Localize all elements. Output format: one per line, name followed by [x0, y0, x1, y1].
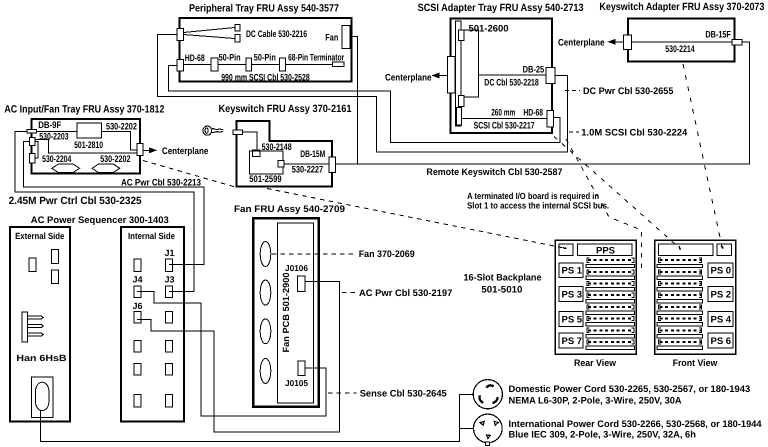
connector centerplane (AC tray right): [137, 144, 143, 156]
svg-text:A terminated I/O board is requ: A terminated I/O board is required in: [467, 191, 599, 201]
wire internal SCSI chain: [183, 64, 332, 66]
PS 0 box: [708, 263, 733, 277]
svg-text:J3: J3: [165, 274, 175, 284]
connector DC (peripheral left): [177, 29, 183, 41]
wire SCSI Cbl 530-2217: [462, 118, 547, 120]
connector DB-9F: [27, 129, 36, 133]
svg-text:1.0M SCSI Cbl 530-2224: 1.0M SCSI Cbl 530-2224: [581, 127, 688, 138]
connector DC cable end lower: [235, 35, 240, 42]
connector 50-pin 2: [246, 58, 252, 71]
svg-text:DC Cable 530-2216: DC Cable 530-2216: [246, 29, 307, 40]
fan oval 3: [260, 319, 271, 344]
external connector a: [29, 258, 36, 272]
external connector c: [51, 270, 58, 284]
front view box: [655, 240, 736, 354]
tick in rear small box (dashed end): [563, 247, 567, 250]
wire J6 to J0106: [137, 282, 339, 433]
plug domestic NEMA L6-30P: [473, 380, 502, 409]
svg-text:Front View: Front View: [673, 358, 718, 369]
connector row6 col2: [165, 395, 172, 408]
connector row6 col1: [134, 395, 141, 408]
svg-text:J4: J4: [133, 274, 143, 284]
connector HD-68 (SCSI right): [547, 111, 554, 128]
connector centerplane (adapter left): [624, 35, 632, 50]
rear slot stack: [586, 258, 635, 349]
connector SCSI bottom: [456, 108, 461, 126]
svg-text:Blue IEC 309, 2-Pole, 3-Wire,: Blue IEC 309, 2-Pole, 3-Wire, 250V, 32A,…: [509, 430, 697, 441]
svg-text:Fan: Fan: [325, 32, 338, 43]
board 501-2810: [77, 123, 101, 138]
connector J3: [165, 286, 172, 298]
wire 530-2227: [284, 163, 329, 165]
wire stub to international plug: [459, 427, 473, 429]
PS 2 box: [708, 286, 733, 301]
SCSI adapter tray box 540-2713: [451, 19, 552, 134]
svg-text:PS 6: PS 6: [711, 336, 732, 347]
external side box: [10, 227, 70, 422]
dashed pointer adapter to front small box: [683, 64, 723, 249]
fan PCB board box: [278, 223, 314, 403]
plug international IEC 309: [474, 414, 503, 446]
svg-text:Slot 1 to access the internal: Slot 1 to access the internal SCSI bus.: [467, 201, 609, 211]
svg-text:J0106: J0106: [285, 263, 308, 273]
fan lens right: [92, 164, 120, 173]
link 2203-2204: [35, 142, 38, 159]
svg-text:PS 2: PS 2: [711, 289, 732, 300]
key icon: [203, 126, 223, 135]
fan lens left: [52, 164, 80, 173]
svg-text:AC Power Sequencer 300-1403: AC Power Sequencer 300-1403: [31, 215, 169, 226]
svg-text:DB-25: DB-25: [523, 64, 545, 75]
label AC Pwr Cbl 530-2197 with dashes: [342, 292, 357, 294]
connector DB-25: [546, 67, 555, 83]
SCSI adapter rail: [455, 21, 461, 126]
svg-text:PS 3: PS 3: [562, 289, 583, 300]
connector row1 col1: [134, 259, 141, 272]
connector keyswitch left: [233, 130, 242, 135]
svg-text:Keyswitch Adapter FRU Assy 370: Keyswitch Adapter FRU Assy 370-2073: [599, 1, 764, 13]
connector 530-2204: [30, 154, 35, 163]
wire keyswitch to 501-2599: [242, 132, 257, 150]
svg-text:Fan PCB 501-2900: Fan PCB 501-2900: [281, 273, 291, 353]
PS 7 box: [559, 333, 583, 348]
connector DB-15M: [329, 157, 336, 172]
svg-text:DB-15F: DB-15F: [705, 30, 731, 41]
svg-text:International Power Cord 53: International Power Cord 530-2266, 530-2…: [509, 419, 763, 430]
external connector b: [51, 250, 58, 264]
wire J4 to J0105: [137, 292, 326, 417]
terminator: [332, 62, 343, 67]
svg-text:50-Pin: 50-Pin: [219, 52, 241, 63]
svg-text:530-2203: 530-2203: [39, 131, 68, 142]
fan oval 2: [260, 280, 271, 305]
fan FRU box 540-2709: [253, 218, 319, 407]
label Fan 370-2069 with dashes: [272, 253, 355, 255]
keyswitch adapter box 370-2073: [628, 19, 735, 62]
dashed pointer SCSI to rear slot 1: [566, 139, 642, 268]
svg-text:PS 1: PS 1: [562, 266, 583, 277]
svg-text:Centerplane: Centerplane: [385, 72, 432, 83]
svg-text:Remote Keyswitch Cbl 530-2587: Remote Keyswitch Cbl 530-2587: [426, 167, 562, 178]
svg-text:Peripheral Tray FRU Assy 540-3: Peripheral Tray FRU Assy 540-3577: [189, 3, 339, 15]
rear top small box: [559, 244, 573, 256]
svg-text:SCSI Adapter Tray FRU Assy 540: SCSI Adapter Tray FRU Assy 540-2713: [418, 2, 584, 14]
svg-text:501-5010: 501-5010: [481, 284, 522, 295]
peripheral tray box 540-3577: [180, 18, 352, 82]
fan oval 4: [260, 358, 271, 383]
wire 2.45M Pwr Ctrl: DB-9F to J3: [15, 131, 194, 291]
AC input/fan tray box 370-1812: [32, 119, 141, 174]
svg-text:NEMA L6-30P, 2-Pole, 3-Wire, 2: NEMA L6-30P, 2-Pole, 3-Wire, 250V, 30A: [509, 396, 682, 407]
svg-text:50-Pin: 50-Pin: [254, 52, 276, 63]
dashed pointer AC tray to keyswitch: [143, 161, 237, 188]
connector row4 col1: [134, 340, 141, 352]
centerplane arrow (AC tray): [143, 149, 150, 151]
svg-text:AC Input/Fan Tray FRU Assy 370: AC Input/Fan Tray FRU Assy 370-1812: [4, 104, 164, 116]
PPS box: [578, 244, 632, 256]
connector 50-pin 1: [211, 58, 218, 71]
internal side box: [121, 227, 184, 422]
connector row5 col1: [134, 364, 141, 376]
label Sense Cbl 530-2645 with dashes: [328, 392, 357, 394]
wire AC Pwr Cbl 530-2213: 530-2203 to J1: [23, 142, 204, 265]
PS 6 box: [708, 333, 733, 348]
svg-text:PS 4: PS 4: [711, 315, 732, 326]
wire DC fanout lower: [183, 35, 234, 39]
connector DC cable end upper: [235, 24, 240, 31]
PS 5 box: [559, 311, 583, 326]
svg-text:501-2600: 501-2600: [469, 23, 509, 34]
svg-text:DC Pwr Cbl 530-2655: DC Pwr Cbl 530-2655: [583, 86, 674, 97]
svg-text:DB-9F: DB-9F: [38, 120, 61, 131]
label DC Pwr Cbl 530-2655 with dashes: [565, 90, 580, 92]
svg-text:Keyswitch FRU Assy 370-2161: Keyswitch FRU Assy 370-2161: [219, 103, 352, 115]
wire 530-2203 to centerplane: [35, 140, 137, 154]
svg-text:530-2214: 530-2214: [665, 44, 695, 55]
connector HD-68 (peripheral left): [177, 60, 183, 72]
svg-text:PS 7: PS 7: [562, 336, 583, 347]
svg-text:HD-68: HD-68: [523, 108, 543, 119]
fan oval 1: [260, 242, 271, 267]
svg-text:HD-68: HD-68: [185, 53, 205, 64]
svg-text:External Side: External Side: [15, 231, 64, 241]
wire DC Pwr: peripheral DC to DB-25: [157, 34, 567, 152]
svg-text:PS 0: PS 0: [711, 266, 732, 277]
svg-text:J1: J1: [165, 248, 175, 258]
wire 530-2202 to centerplane: [102, 131, 137, 150]
svg-text:J0105: J0105: [285, 378, 308, 388]
connector row3 col2: [165, 312, 172, 324]
connector board bottom: [458, 96, 463, 107]
front top wide box: [658, 244, 713, 256]
connector board top: [458, 30, 463, 41]
board 501-2599: [249, 151, 283, 174]
SCSI adapter board 501-2600: [461, 30, 479, 97]
svg-text:Rear View: Rear View: [574, 358, 617, 369]
svg-text:16-Slot Backplane: 16-Slot Backplane: [464, 273, 542, 284]
connector J6: [134, 312, 141, 324]
PS 1 box: [559, 263, 583, 277]
connector row5 col2: [165, 364, 172, 376]
connector centerplane (SCSI left): [448, 57, 456, 93]
label 1.0M SCSI Cbl 530-2224 with dashes: [569, 131, 579, 133]
svg-text:Centerplane: Centerplane: [162, 146, 209, 157]
connector J4: [134, 286, 141, 298]
tick in front wide box (dashed end): [679, 246, 680, 250]
wire 530-2214: [632, 41, 733, 43]
rear view box: [555, 240, 636, 354]
prong connector icon: [22, 312, 43, 342]
connector J0106: [298, 276, 306, 292]
svg-text:501-2599: 501-2599: [249, 174, 281, 185]
centerplane arrow (adapter): [613, 41, 624, 43]
wire DB-9F to 501-2810: [36, 130, 77, 132]
PS 3 box: [559, 286, 583, 301]
keyswitch FRU box 370-2161 (stepped): [237, 121, 332, 187]
svg-text:AC Pwr Cbl 530-2197: AC Pwr Cbl 530-2197: [359, 288, 452, 299]
svg-text:260 mm: 260 mm: [491, 108, 515, 119]
svg-text:530-2148: 530-2148: [262, 142, 292, 153]
svg-text:PS 5: PS 5: [562, 315, 583, 326]
wire 1.0M SCSI: peripheral HD-68 to SCSI HD-68: [169, 66, 560, 143]
wire power cord from Han outlet: [41, 394, 474, 441]
wire DC Cbl 530-2218: [479, 74, 546, 76]
outlet Han 6HsB: [31, 377, 53, 417]
svg-text:DB-15M: DB-15M: [300, 149, 325, 160]
wire remote keyswitch: DB-15F to DB-15M: [336, 42, 750, 164]
svg-text:Fan 370-2069: Fan 370-2069: [359, 249, 415, 260]
connector J1: [165, 259, 172, 272]
dashed pointer SCSI to front slot 1: [554, 137, 680, 249]
svg-text:2.45M Pwr Ctrl Cbl 530-2325: 2.45M Pwr Ctrl Cbl 530-2325: [9, 195, 142, 207]
connector on 501-2599 right: [278, 160, 284, 167]
svg-text:Centerplane: Centerplane: [558, 37, 605, 48]
svg-text:PPS: PPS: [596, 245, 615, 256]
dashed pointer keyswitch to rear PPS: [267, 189, 566, 249]
svg-text:DC Cbl 530-2218: DC Cbl 530-2218: [484, 78, 539, 89]
wire fan drop from peripheral fan: [350, 37, 358, 165]
fan connector (peripheral right): [342, 26, 350, 49]
svg-text:J6: J6: [133, 301, 143, 311]
svg-text:501-2810: 501-2810: [74, 140, 103, 151]
front top small box: [717, 244, 731, 256]
svg-text:Internal Side: Internal Side: [128, 231, 175, 241]
connector J0105: [298, 361, 305, 376]
wire DC fanout upper: [183, 28, 234, 33]
front slot stack: [657, 258, 703, 349]
svg-text:990 mm SCSI Cbl 530-2528: 990 mm SCSI Cbl 530-2528: [221, 73, 310, 84]
connector on 501-2599 top: [253, 150, 261, 156]
svg-text:530-2227: 530-2227: [292, 164, 324, 175]
svg-text:Han 6HsB: Han 6HsB: [16, 353, 67, 363]
connector row4 col2: [165, 340, 172, 352]
svg-text:Fan FRU Assy 540-2709: Fan FRU Assy 540-2709: [234, 204, 345, 215]
connector 68-pin: [279, 58, 285, 71]
centerplane arrow (SCSI): [438, 75, 448, 77]
svg-text:Sense Cbl 530-2645: Sense Cbl 530-2645: [360, 389, 448, 400]
connector DB-15F: [732, 40, 742, 45]
PS 4 box: [708, 311, 733, 326]
svg-text:Domestic Power Cord 530-226: Domestic Power Cord 530-2265, 530-2567, …: [509, 384, 751, 395]
svg-text:SCSI Cbl 530-2217: SCSI Cbl 530-2217: [474, 120, 535, 131]
tick in front small box (dashed end): [721, 246, 723, 249]
connector 530-2203: [30, 138, 35, 146]
